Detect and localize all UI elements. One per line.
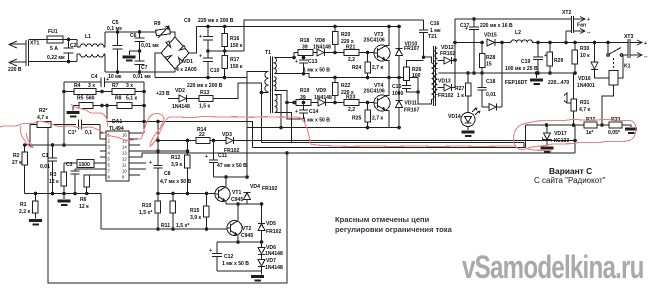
svg-text:VD9: VD9: [316, 88, 326, 94]
svg-text:R15: R15: [190, 208, 200, 214]
svg-text:220 В: 220 В: [8, 67, 22, 73]
LED VD14: [448, 108, 481, 138]
svg-text:Вариант С: Вариант С: [549, 166, 592, 176]
svg-text:220...470: 220...470: [548, 80, 569, 86]
wire long feedback y147.5: [253, 125, 526, 148]
capacitor C1: [40, 145, 57, 195]
svg-text:0,01 мк: 0,01 мк: [133, 74, 151, 80]
capacitor C4: [91, 74, 122, 87]
wire R9 to bridge: [170, 32, 175, 37]
zener VD17: [541, 125, 570, 153]
transistor VT3: [364, 27, 391, 78]
inductor L2: [511, 30, 533, 43]
wire emitter y204: [226, 202, 262, 206]
resistor R2var: [28, 108, 76, 147]
wire y271 and ground: [217, 271, 264, 282]
capacitor C16: [419, 20, 441, 38]
svg-text:1N4148: 1N4148: [314, 95, 332, 101]
capacitor C13: [295, 56, 330, 76]
svg-text:R25: R25: [352, 116, 362, 122]
svg-text:+: +: [544, 53, 547, 59]
svg-text:R16: R16: [230, 36, 240, 42]
svg-text:C10: C10: [210, 68, 220, 74]
svg-text:C9: C9: [184, 18, 191, 24]
red highlight left band: [0, 104, 164, 148]
diode VD13: [438, 79, 455, 100]
svg-text:22: 22: [199, 132, 205, 138]
svg-text:XT3: XT3: [624, 34, 634, 40]
ground between C6 C7: [123, 51, 140, 62]
svg-text:2,2 к: 2,2 к: [19, 209, 30, 215]
svg-text:39: 39: [300, 95, 306, 101]
wire pin13 to C8: [135, 149, 189, 153]
svg-text:1к*: 1к*: [586, 130, 593, 136]
resistor R3: [49, 163, 100, 186]
svg-text:VD7: VD7: [266, 258, 276, 264]
resistor R21: [335, 45, 374, 64]
svg-text:R5: R5: [77, 96, 84, 102]
svg-text:FR107: FR107: [404, 46, 419, 52]
wire to C2: [63, 38, 77, 42]
svg-text:+: +: [199, 34, 202, 40]
svg-text:100: 100: [412, 73, 421, 79]
svg-text:11: 11: [122, 163, 127, 168]
svg-text:1 мк x 50 В: 1 мк x 50 В: [303, 68, 330, 74]
svg-text:FR102: FR102: [266, 229, 281, 235]
svg-text:VT1: VT1: [232, 190, 242, 196]
svg-text:C3: C3: [66, 162, 73, 168]
svg-text:FR102: FR102: [262, 186, 277, 192]
svg-text:+: +: [644, 41, 647, 47]
resistor R7: [102, 83, 146, 94]
svg-text:0,01: 0,01: [40, 164, 50, 170]
svg-text:15: 15: [486, 62, 492, 68]
svg-text:vSamodelkina.ru: vSamodelkina.ru: [462, 250, 644, 286]
transistor VT1: [215, 175, 243, 204]
resistor R25: [352, 101, 383, 130]
svg-text:R17: R17: [230, 57, 240, 63]
svg-text:0,01 мк: 0,01 мк: [141, 43, 159, 49]
wire rail bottom y72: [105, 71, 175, 73]
wire T1 drive vertical x261: [261, 83, 263, 143]
svg-text:10 к: 10 к: [580, 53, 590, 59]
svg-text:R30: R30: [580, 46, 590, 52]
wire +DC rail y26.5: [184, 18, 399, 28]
capacitor C18: [478, 73, 497, 107]
svg-text:КС133: КС133: [554, 138, 569, 144]
capacitor C11: [205, 141, 247, 178]
wire rectifier output vertical: [453, 19, 457, 87]
capacitor C2: [47, 40, 77, 64]
svg-text:1 к: 1 к: [457, 93, 464, 99]
svg-text:150 к: 150 к: [230, 43, 243, 49]
diode VD15: [484, 33, 528, 87]
capacitor C9: [199, 27, 213, 52]
svg-text:12 к: 12 к: [79, 204, 89, 210]
svg-text:R31: R31: [580, 100, 590, 106]
capacitor C6: [130, 30, 159, 51]
snubber capacitor C15: [392, 81, 418, 98]
svg-text:R27: R27: [455, 86, 465, 92]
svg-text:+23 В: +23 В: [156, 91, 170, 97]
svg-text:VD5: VD5: [266, 221, 276, 227]
svg-text:Т21: Т21: [428, 34, 437, 40]
svg-text:FR102: FR102: [438, 93, 453, 99]
diode VD16: [577, 43, 609, 90]
svg-text:C12: C12: [224, 254, 234, 260]
svg-text:--: --: [644, 54, 648, 60]
wire current sense y125: [526, 123, 631, 127]
resistor R14: [156, 127, 210, 143]
svg-text:VD4: VD4: [250, 184, 260, 190]
connector XT2: [562, 10, 591, 36]
wire emitter rail y127.5: [247, 127, 399, 129]
svg-text:10: 10: [122, 169, 127, 174]
svg-text:3 х: 3 х: [126, 83, 133, 89]
svg-text:VD17: VD17: [554, 131, 567, 137]
wire ground bus y193.5: [25, 193, 101, 195]
svg-text:12: 12: [122, 157, 127, 162]
svg-text:1 мк x 50 В: 1 мк x 50 В: [222, 261, 249, 267]
svg-text:2,2: 2,2: [348, 107, 355, 113]
capacitor C10: [199, 51, 220, 78]
svg-text:R20: R20: [341, 32, 351, 38]
wire rail top y32: [105, 31, 156, 33]
resistor R15: [190, 192, 209, 231]
resistor R18: [298, 38, 313, 55]
svg-text:R12: R12: [171, 155, 181, 161]
capacitor C3: [66, 160, 100, 196]
svg-text:FR102: FR102: [440, 51, 455, 57]
ground right end: [625, 128, 637, 135]
svg-text:+: +: [106, 77, 109, 83]
svg-text:1N4148: 1N4148: [265, 265, 283, 271]
svg-text:1N4148: 1N4148: [172, 104, 190, 110]
svg-text:3,9 к: 3,9 к: [190, 215, 201, 221]
svg-text:C1: C1: [42, 153, 49, 159]
svg-text:2SC4106: 2SC4106: [364, 89, 385, 95]
svg-text:Fan: Fan: [577, 23, 586, 29]
wire mid rail y77.5 right: [309, 77, 418, 79]
svg-text:R7: R7: [112, 83, 119, 89]
resistor R10: [139, 201, 161, 231]
svg-text:регулировки ограничения тока: регулировки ограничения тока: [335, 225, 453, 234]
svg-text:+: +: [465, 26, 468, 32]
svg-text:+: +: [295, 59, 298, 65]
svg-text:4,7 мк x 50 В: 4,7 мк x 50 В: [160, 179, 192, 185]
svg-text:1N4148: 1N4148: [313, 45, 331, 51]
svg-text:С сайта "Радиокот": С сайта "Радиокот": [534, 176, 606, 185]
diode VD9: [314, 88, 335, 106]
svg-text:Красным отмечены цепи: Красным отмечены цепи: [335, 215, 430, 224]
svg-text:C13: C13: [308, 59, 318, 65]
svg-text:3 х: 3 х: [88, 83, 95, 89]
svg-text:2,7 к: 2,7 к: [372, 65, 383, 71]
resistor R9 variable: [154, 21, 170, 38]
svg-text:VD8: VD8: [315, 38, 325, 44]
wire T1 w3 leads: [274, 95, 291, 143]
resistor R27: [455, 71, 471, 112]
svg-text:2,2: 2,2: [348, 57, 355, 63]
svg-text:C15: C15: [392, 84, 402, 90]
resistor R1: [19, 192, 42, 226]
svg-text:+: +: [209, 248, 212, 254]
diode VD6: [258, 242, 283, 257]
red highlight right loop: [514, 119, 636, 151]
svg-text:16: 16: [122, 133, 127, 138]
capacitor C17: [460, 19, 513, 75]
svg-text:C4: C4: [91, 74, 98, 80]
wire capacitor midpoint y51: [206, 49, 244, 53]
wire pin3 y145: [25, 143, 100, 147]
wire left vertical x64: [62, 82, 66, 147]
connector XT1: [8, 40, 40, 73]
svg-text:C945: C945: [241, 233, 253, 239]
wire y242: [217, 240, 263, 244]
svg-text:VD15: VD15: [484, 33, 497, 39]
svg-text:0,22 мк: 0,22 мк: [47, 55, 65, 61]
svg-text:5 А: 5 А: [50, 46, 58, 52]
resistor R30: [572, 43, 590, 75]
IC DA1 TL494: [100, 119, 146, 181]
svg-text:0,05*: 0,05*: [608, 130, 620, 136]
wire T2 primary bottom: [416, 78, 431, 105]
capacitor C8: [149, 120, 192, 201]
capacitor C14: [295, 101, 330, 124]
resistor R4: [64, 83, 104, 94]
svg-text:39: 39: [302, 45, 308, 51]
svg-text:VD16: VD16: [578, 76, 591, 82]
svg-text:4 x 2А05: 4 x 2А05: [176, 67, 197, 73]
wire top rail y20 to C16: [244, 20, 424, 51]
capacitor C19: [505, 43, 547, 75]
wire T1 w2 leads: [274, 90, 303, 119]
bridge VD1: [161, 37, 197, 73]
wire line P y140.5: [233, 139, 577, 143]
svg-text:--: --: [587, 30, 591, 36]
svg-text:27 к: 27 к: [12, 160, 22, 166]
svg-text:+: +: [587, 17, 590, 23]
resistor R8: [102, 96, 146, 109]
wire T2 primary top: [422, 33, 432, 63]
svg-text:R28: R28: [486, 55, 496, 61]
wire feedback loop big: [48, 127, 287, 283]
svg-text:R2*: R2*: [39, 108, 48, 114]
junction VT3 collector rail: [387, 25, 401, 29]
resistor R33: [608, 117, 622, 136]
wire x144 vertical: [135, 82, 146, 133]
svg-text:R13: R13: [200, 90, 210, 96]
resistor R17: [222, 51, 243, 78]
svg-text:R2: R2: [13, 153, 20, 159]
resistor R23: [335, 95, 374, 114]
svg-text:13: 13: [122, 151, 127, 156]
ground symbol bus: [58, 186, 71, 206]
diode VD4: [244, 175, 278, 204]
resistor R11: [161, 192, 189, 231]
diode VD3: [210, 132, 239, 154]
svg-text:1,5 х*: 1,5 х*: [139, 210, 152, 216]
wire VT1 base y193.5: [158, 193, 215, 195]
diode snubber on y107: [482, 104, 502, 111]
node +23V: [156, 91, 179, 99]
svg-text:2SC4106: 2SC4106: [364, 38, 385, 44]
svg-text:0,1: 0,1: [85, 130, 92, 136]
svg-text:0,1 мк: 0,1 мк: [107, 26, 122, 32]
svg-text:R24: R24: [352, 65, 362, 71]
svg-text:C18: C18: [486, 79, 496, 85]
svg-text:R4: R4: [74, 83, 81, 89]
svg-text:+: +: [199, 54, 202, 60]
svg-text:1000: 1000: [392, 91, 403, 97]
wire bridge bottom: [174, 69, 176, 72]
svg-text:1500: 1500: [79, 162, 90, 168]
wire snubber vertical x502: [501, 43, 503, 108]
resistor R19: [296, 88, 318, 105]
resistor R24: [352, 51, 383, 80]
svg-text:C11: C11: [218, 153, 227, 159]
svg-text:VT2: VT2: [242, 226, 252, 232]
svg-text:R10: R10: [142, 203, 152, 209]
svg-text:1,5 к: 1,5 к: [199, 104, 210, 110]
svg-text:K1: K1: [624, 64, 631, 70]
svg-text:C14: C14: [309, 109, 319, 115]
wire long feedback y153.5: [135, 151, 575, 157]
wire bridge right to +rail: [189, 27, 197, 54]
transistor VT4: [364, 76, 391, 128]
resistor R2: [12, 143, 28, 193]
svg-text:VD11: VD11: [405, 101, 418, 107]
wire return rail y73: [439, 72, 575, 74]
svg-text:R1: R1: [20, 202, 27, 208]
svg-text:2,7 к: 2,7 к: [372, 116, 383, 122]
svg-text:1N4001: 1N4001: [577, 83, 595, 89]
resistor R20: [332, 27, 354, 55]
svg-text:R6: R6: [80, 197, 87, 203]
svg-text:R3: R3: [50, 172, 57, 178]
svg-text:R9: R9: [154, 21, 161, 27]
svg-text:12 к: 12 к: [49, 179, 59, 185]
resistor R29: [547, 43, 569, 87]
svg-text:C19: C19: [521, 59, 531, 65]
svg-text:4,7 к: 4,7 к: [579, 107, 590, 113]
svg-text:1N4148: 1N4148: [265, 251, 283, 257]
svg-text:VD13: VD13: [438, 79, 451, 85]
transistor VT2: [227, 204, 253, 244]
transformer T1: [265, 50, 277, 113]
svg-text:0,01: 0,01: [486, 92, 496, 98]
diode VD10: [396, 25, 420, 80]
wire T1 primary bottom lead: [260, 91, 269, 95]
svg-text:C7: C7: [141, 65, 148, 71]
resistor R28: [479, 41, 495, 75]
svg-text:TL494: TL494: [109, 126, 124, 132]
capacitor C1var: [68, 120, 106, 140]
svg-text:R11: R11: [161, 223, 170, 229]
wire XT2 minus drop: [564, 31, 571, 44]
svg-text:1,5 х*: 1,5 х*: [176, 223, 189, 229]
svg-text:L2: L2: [515, 30, 521, 36]
ground under R5: [67, 106, 80, 118]
svg-text:5,1 к: 5,1 к: [126, 96, 137, 102]
watermark vSamodelkina.ru: [462, 250, 644, 286]
svg-text:+: +: [149, 160, 152, 166]
resistor R16: [222, 27, 243, 52]
wire C4 top bus y82: [64, 81, 144, 83]
svg-text:150 к: 150 к: [230, 64, 243, 70]
svg-text:FEP16DT: FEP16DT: [505, 80, 528, 86]
svg-text:C8: C8: [164, 171, 171, 177]
svg-text:R22: R22: [341, 83, 351, 89]
resistor R31 variable: [564, 73, 590, 125]
ground on return rail: [530, 71, 543, 85]
svg-text:+: +: [295, 109, 298, 115]
svg-text:FR107: FR107: [404, 108, 419, 114]
svg-text:R23: R23: [346, 95, 356, 101]
svg-text:T1: T1: [265, 50, 271, 56]
svg-text:XT2: XT2: [562, 10, 572, 16]
svg-text:4,7 к: 4,7 к: [37, 115, 48, 121]
diode VD12: [438, 45, 456, 64]
text note red circuits: [335, 215, 453, 234]
diode VD2: [172, 88, 199, 110]
wire VT2 base y229: [101, 194, 227, 230]
transformer T2: [428, 34, 438, 106]
wire bottom input: [29, 61, 78, 63]
svg-text:C6: C6: [130, 33, 137, 39]
wire T1 w1 leads: [274, 53, 309, 78]
diode VD7: [258, 254, 283, 271]
svg-text:R8: R8: [115, 96, 122, 102]
wire -DC rail y77.5 left: [155, 76, 247, 89]
snubber resistor R26: [404, 61, 424, 81]
wire line Q y142.5: [262, 143, 525, 148]
svg-text:220 мк x 200 В: 220 мк x 200 В: [198, 18, 234, 24]
svg-text:VD2: VD2: [175, 88, 185, 94]
svg-text:XT1: XT1: [30, 41, 40, 47]
svg-text:VD14: VD14: [448, 114, 461, 120]
inductor L1 common-mode choke: [77, 32, 105, 72]
diode VD5: [258, 202, 281, 242]
svg-text:220 мк x 16 В: 220 мк x 16 В: [480, 23, 513, 29]
red highlight middle band: [150, 116, 516, 146]
svg-text:R18: R18: [300, 38, 310, 44]
svg-text:R19: R19: [300, 88, 310, 94]
svg-text:R21: R21: [346, 45, 356, 51]
diode VD11: [396, 78, 420, 130]
svg-text:100 мк x 25 В: 100 мк x 25 В: [505, 66, 538, 72]
wire feedback vertical x575: [574, 125, 576, 153]
relay coil K1: [602, 55, 623, 125]
relay contact K1: [607, 43, 631, 71]
resistor R22: [332, 76, 354, 105]
resistor R6: [79, 175, 100, 210]
svg-text:47 мк x 50 В: 47 мк x 50 В: [217, 163, 247, 169]
wire main output rail y42.5: [455, 41, 629, 45]
wire x107 to feedback: [107, 106, 253, 148]
wire top input: [29, 39, 48, 41]
svg-text:14: 14: [122, 145, 127, 150]
svg-text:560: 560: [86, 96, 95, 102]
svg-text:C1*: C1*: [68, 130, 77, 136]
svg-text:FU1: FU1: [48, 29, 58, 35]
svg-text:C16: C16: [430, 21, 440, 27]
resistor R32: [584, 117, 597, 136]
svg-text:C2: C2: [70, 43, 77, 49]
svg-text:L1: L1: [85, 34, 91, 40]
resistor R13: [199, 83, 262, 110]
svg-text:220 мк x 200 В: 220 мк x 200 В: [187, 83, 223, 89]
